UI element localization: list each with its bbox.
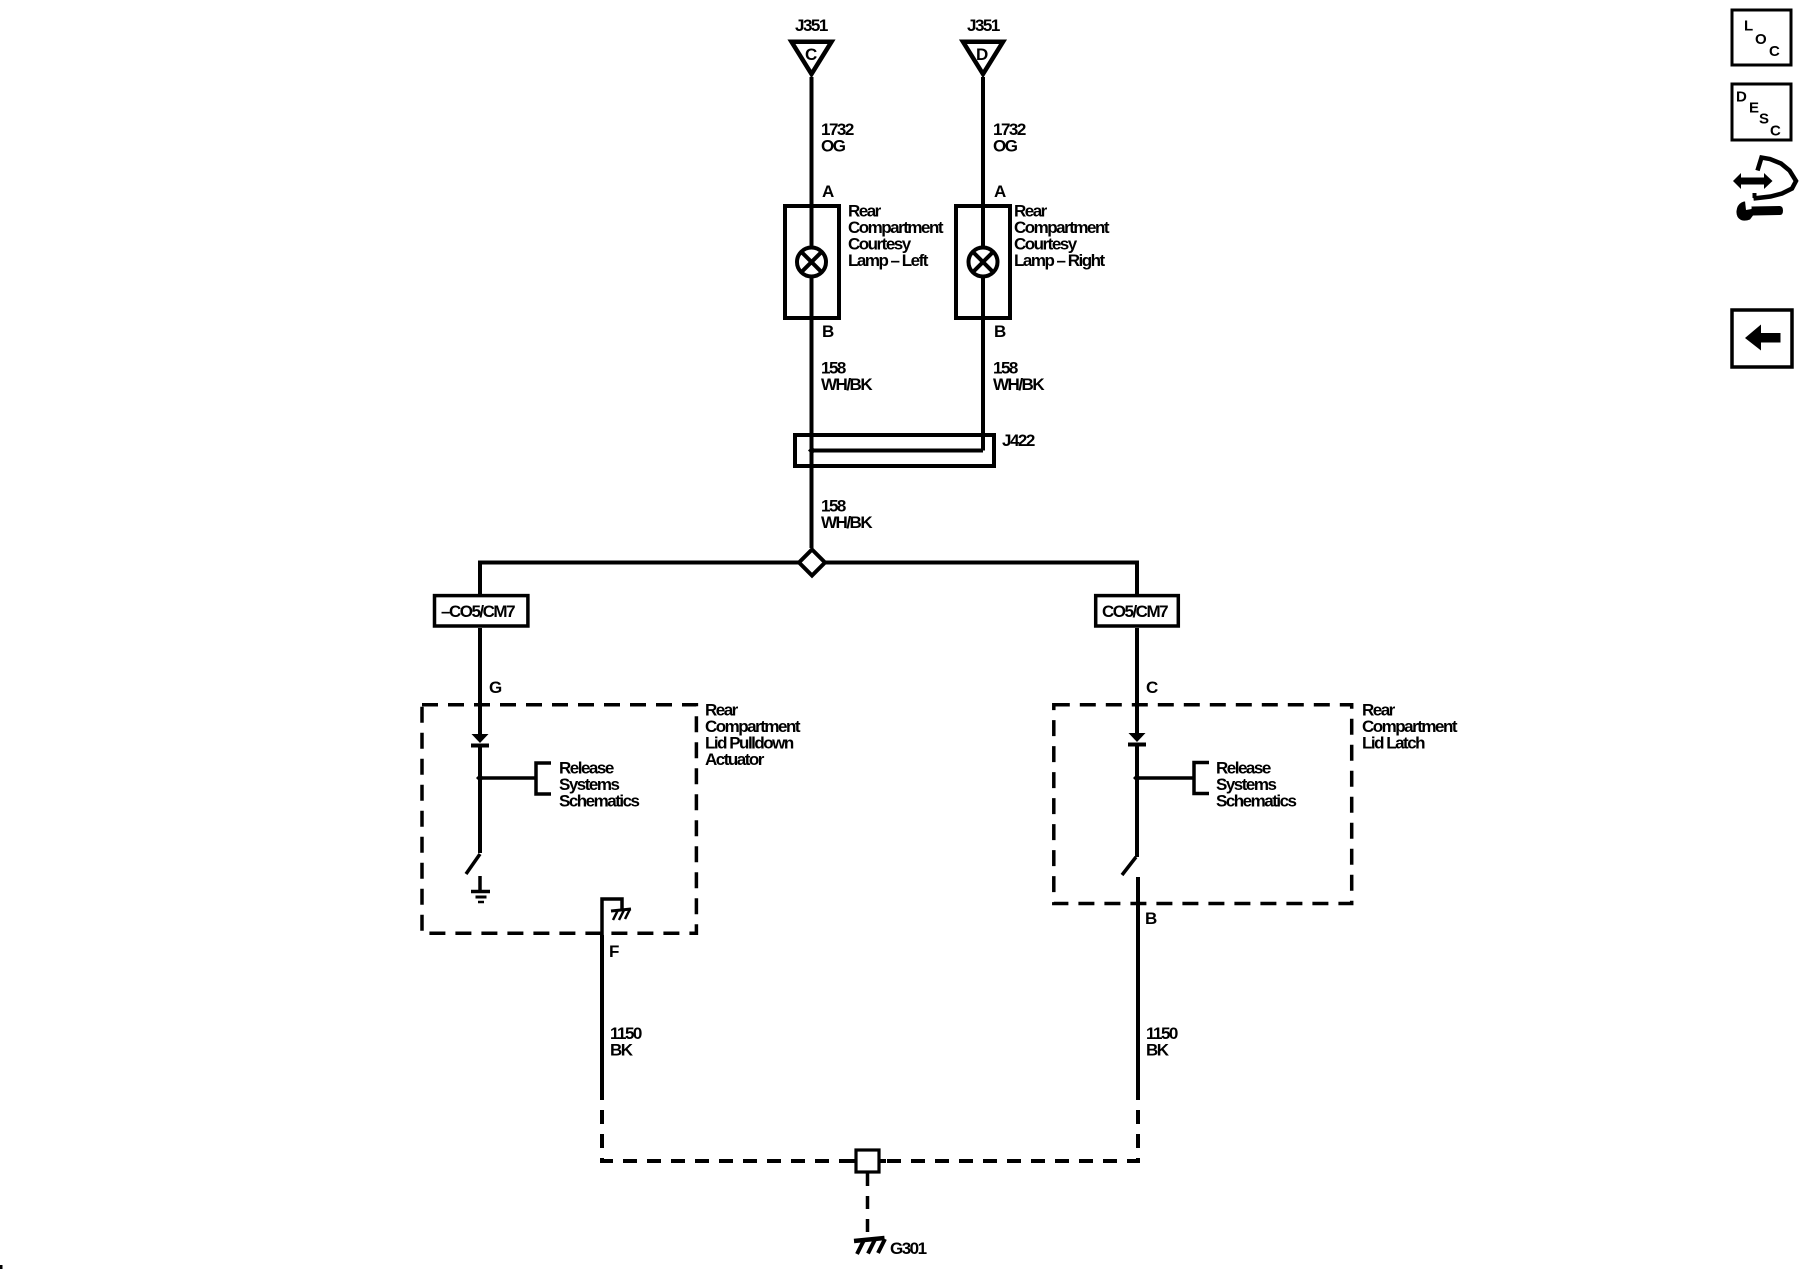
wire label 1150 BK (right) bbox=[1146, 1024, 1178, 1060]
svg-text:S: S bbox=[1759, 111, 1769, 128]
wire stub left of G301 box bbox=[846, 1159, 855, 1163]
wire through right lamp box bbox=[981, 206, 985, 318]
splice J422 inner bus bar bbox=[810, 449, 983, 453]
svg-text:C: C bbox=[1146, 678, 1158, 697]
wire -CO5/CM7 to actuator pin G bbox=[478, 628, 482, 703]
branch wire to release systems ref (latch) bbox=[1137, 776, 1194, 780]
svg-text:WH/BK: WH/BK bbox=[821, 375, 873, 394]
svg-text:D: D bbox=[1736, 89, 1747, 106]
ground G301 symbol bbox=[854, 1238, 885, 1254]
svg-text:WH/BK: WH/BK bbox=[993, 375, 1045, 394]
wire lamp-left B to J422 bbox=[810, 318, 814, 435]
wire lamp-right B to J422 bbox=[981, 318, 985, 451]
lamp E1 Rear Compartment Courtesy Lamp - Left : box bbox=[785, 206, 839, 318]
switch blade (latch) bbox=[1122, 857, 1136, 875]
junction dot (latch) bbox=[1133, 774, 1141, 782]
lamp symbol (right) bbox=[969, 248, 998, 277]
svg-text:OG: OG bbox=[993, 137, 1018, 156]
svg-text:L: L bbox=[1744, 18, 1753, 35]
wire CO5/CM7 to latch pin C bbox=[1135, 628, 1139, 703]
label Rear Compartment Lid Latch bbox=[1362, 701, 1458, 753]
svg-text:C: C bbox=[1770, 123, 1781, 140]
wire label 1732 OG (right) bbox=[993, 120, 1026, 156]
svg-text:E: E bbox=[1749, 100, 1759, 117]
icon back arrow box bbox=[1732, 310, 1792, 367]
label Release Systems Schematics (latch) bbox=[1216, 759, 1297, 811]
svg-text:J422: J422 bbox=[1002, 431, 1035, 450]
dashed ground wire (left) bbox=[602, 1100, 853, 1161]
svg-text:J351: J351 bbox=[967, 16, 1000, 35]
svg-text:B: B bbox=[994, 322, 1006, 341]
svg-text:WH/BK: WH/BK bbox=[821, 513, 873, 532]
wire label 1150 BK (left) bbox=[610, 1024, 642, 1060]
wire stub right of G301 box bbox=[880, 1159, 886, 1163]
component dashed box: Rear Compartment Lid Pulldown Actuator bbox=[422, 705, 696, 934]
wire diode to switch (actuator) bbox=[478, 746, 482, 853]
label Release Systems Schematics (actuator) bbox=[559, 759, 640, 811]
wire pin C into latch bbox=[1135, 703, 1139, 733]
svg-text:Lamp – Left: Lamp – Left bbox=[848, 251, 929, 270]
svg-text:B: B bbox=[1145, 909, 1157, 928]
ground symbol (actuator internal) bbox=[471, 876, 490, 902]
svg-text:D: D bbox=[976, 45, 988, 64]
wire J422 to splice diamond bbox=[810, 435, 814, 548]
splice diamond bbox=[799, 550, 825, 576]
dashed ground wire (right) bbox=[882, 1100, 1138, 1161]
lamp symbol (left) bbox=[797, 248, 826, 277]
svg-text:CO5/CM7: CO5/CM7 bbox=[1102, 602, 1168, 621]
chassis ground hook (actuator internal) bbox=[602, 899, 631, 935]
diode symbol (latch) bbox=[1128, 733, 1146, 745]
svg-text:OG: OG bbox=[821, 137, 846, 156]
svg-text:A: A bbox=[822, 182, 834, 201]
wire label 158 WH/BK (below J422) bbox=[821, 497, 873, 533]
lamp E2 Rear Compartment Courtesy Lamp - Right : box bbox=[956, 206, 1010, 318]
junction dot in J422 bbox=[808, 447, 816, 455]
off-page bracket (actuator) bbox=[536, 763, 551, 794]
connector triangle J351 D bbox=[963, 42, 1003, 74]
label Rear Compartment Lid Pulldown Actuator bbox=[705, 701, 801, 770]
svg-text:–CO5/CM7: –CO5/CM7 bbox=[441, 602, 515, 621]
svg-text:F: F bbox=[609, 942, 619, 961]
wire label 158 WH/BK (left upper) bbox=[821, 359, 873, 395]
svg-text:A: A bbox=[994, 182, 1006, 201]
connector box -CO5/CM7 (left) bbox=[435, 596, 528, 626]
stray mark bottom-left bbox=[0, 1265, 3, 1269]
connector box CO5/CM7 (right) bbox=[1096, 596, 1179, 626]
wire J351-C to lamp A bbox=[810, 77, 814, 206]
component dashed box: Rear Compartment Lid Latch bbox=[1054, 705, 1352, 904]
wire through left lamp box bbox=[810, 206, 814, 318]
svg-text:J351: J351 bbox=[795, 16, 828, 35]
icon LOC box bbox=[1732, 10, 1791, 65]
off-page bracket (latch) bbox=[1194, 763, 1209, 794]
svg-text:C: C bbox=[1769, 43, 1780, 60]
svg-text:Lamp – Right: Lamp – Right bbox=[1014, 251, 1106, 270]
wire label 158 WH/BK (right upper) bbox=[993, 359, 1045, 395]
svg-text:Actuator: Actuator bbox=[705, 750, 765, 769]
connector triangle J351 C bbox=[792, 42, 832, 74]
diode symbol (actuator) bbox=[471, 734, 489, 746]
svg-text:Schematics: Schematics bbox=[559, 792, 640, 811]
wire diode to switch (latch) bbox=[1135, 745, 1139, 857]
svg-text:Schematics: Schematics bbox=[1216, 792, 1297, 811]
svg-text:B: B bbox=[822, 322, 834, 341]
ground splice box G301 bbox=[856, 1150, 879, 1172]
dashed wire to G301 ground bbox=[866, 1173, 870, 1238]
branch wire to release systems ref (actuator) bbox=[480, 776, 536, 780]
wire latch switch to pin B bbox=[1136, 877, 1140, 1100]
label Rear Compartment Courtesy Lamp - Left bbox=[848, 202, 944, 271]
svg-text:BK: BK bbox=[610, 1041, 634, 1060]
switch blade (actuator) bbox=[466, 854, 480, 874]
svg-text:BK: BK bbox=[1146, 1041, 1170, 1060]
splice J422 outer box bbox=[795, 435, 994, 466]
wire J351-D to lamp A bbox=[981, 77, 985, 206]
junction dot (actuator) bbox=[476, 774, 484, 782]
svg-text:O: O bbox=[1755, 31, 1767, 48]
wire pin G into actuator bbox=[478, 703, 482, 734]
wire pin F to ground (solid part) bbox=[600, 935, 604, 1100]
label Rear Compartment Courtesy Lamp - Right bbox=[1014, 202, 1110, 271]
icon diagnostic (arrows and wrench) bbox=[1733, 158, 1796, 221]
svg-text:Lid Latch: Lid Latch bbox=[1362, 734, 1425, 753]
main horizontal wire bbox=[480, 563, 1137, 595]
wire label 1732 OG (left) bbox=[821, 120, 854, 156]
svg-text:G: G bbox=[489, 678, 502, 697]
svg-text:C: C bbox=[805, 45, 817, 64]
icon DESC box bbox=[1732, 84, 1791, 140]
svg-text:G301: G301 bbox=[890, 1239, 927, 1258]
